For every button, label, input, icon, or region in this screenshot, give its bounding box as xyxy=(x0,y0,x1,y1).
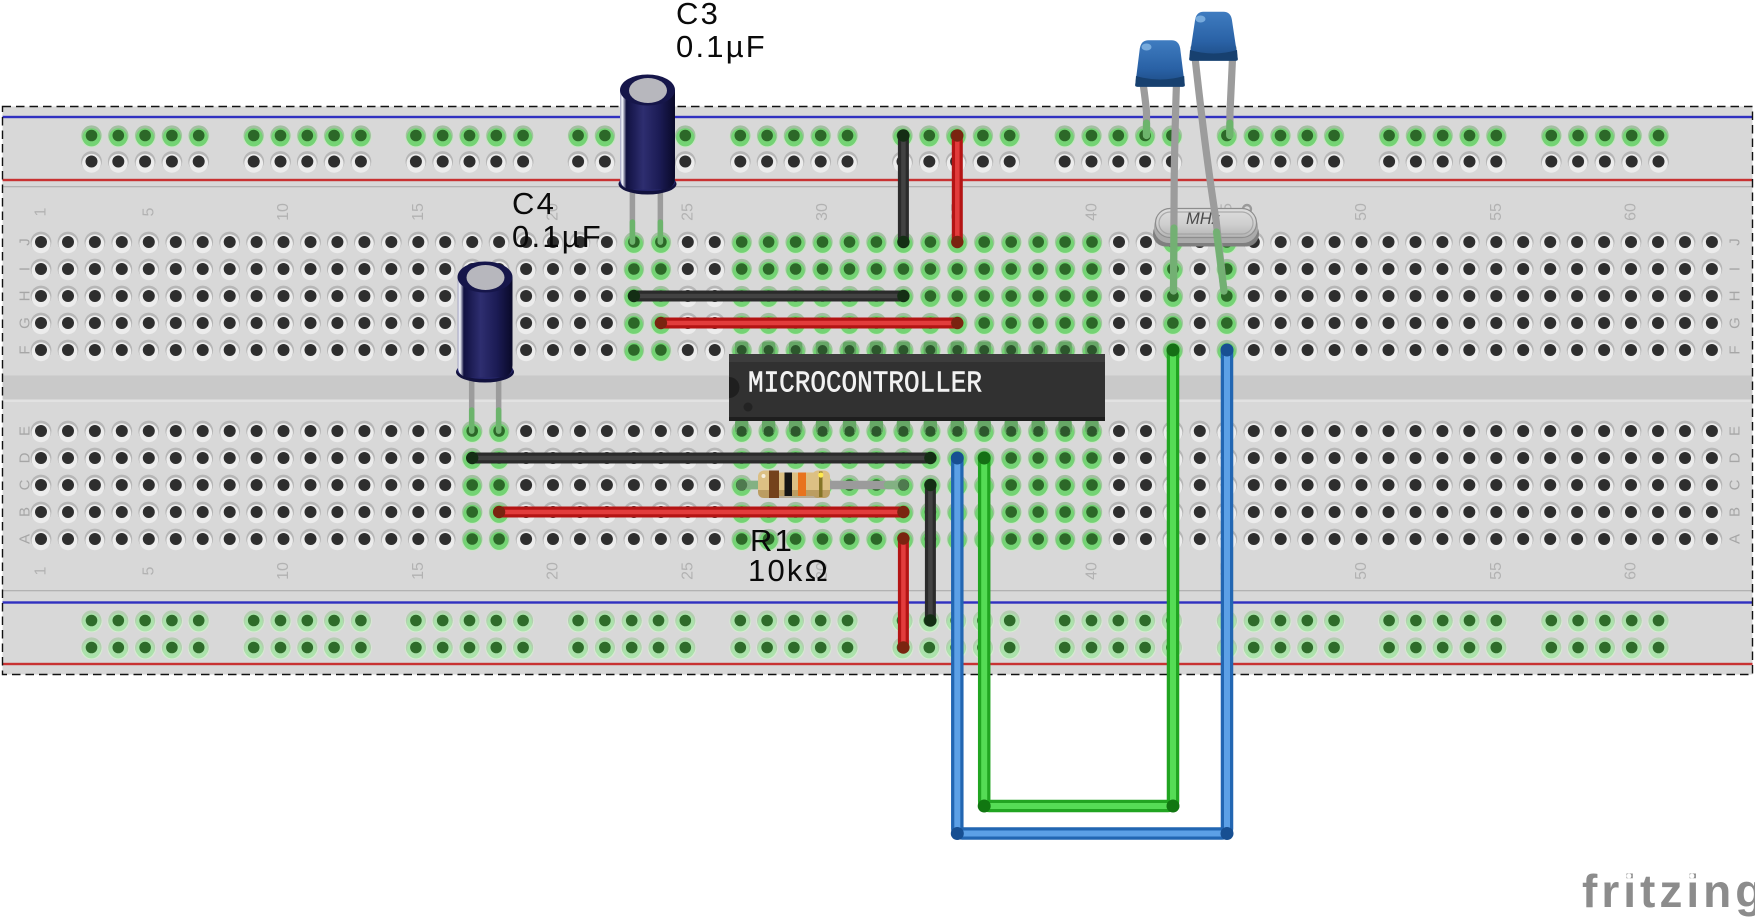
svg-text:25: 25 xyxy=(679,203,696,221)
svg-text:10: 10 xyxy=(275,562,292,580)
svg-text:1: 1 xyxy=(33,207,50,216)
svg-text:G: G xyxy=(1727,317,1744,329)
svg-text:50: 50 xyxy=(1353,203,1370,221)
svg-text:fritzing: fritzing xyxy=(1582,865,1755,917)
svg-text:5: 5 xyxy=(140,566,157,575)
svg-text:10: 10 xyxy=(275,203,292,221)
svg-text:5: 5 xyxy=(140,207,157,216)
svg-text:B: B xyxy=(1727,507,1744,517)
svg-text:I: I xyxy=(1727,267,1744,271)
svg-text:D: D xyxy=(1727,452,1744,463)
svg-text:20: 20 xyxy=(545,562,562,580)
svg-text:15: 15 xyxy=(410,203,427,221)
svg-text:C: C xyxy=(1727,479,1744,490)
svg-text:C4: C4 xyxy=(512,186,556,221)
svg-text:60: 60 xyxy=(1623,562,1640,580)
svg-text:50: 50 xyxy=(1353,562,1370,580)
svg-text:MICROCONTROLLER: MICROCONTROLLER xyxy=(748,367,982,401)
svg-text:10kΩ: 10kΩ xyxy=(748,553,830,588)
svg-text:E: E xyxy=(1727,426,1744,436)
svg-text:30: 30 xyxy=(814,203,831,221)
svg-text:55: 55 xyxy=(1488,203,1505,221)
svg-text:25: 25 xyxy=(679,562,696,580)
svg-text:C3: C3 xyxy=(676,0,720,31)
svg-text:55: 55 xyxy=(1488,562,1505,580)
svg-text:15: 15 xyxy=(410,562,427,580)
svg-text:0.1µF: 0.1µF xyxy=(512,219,603,254)
svg-text:A: A xyxy=(1727,534,1744,544)
svg-text:60: 60 xyxy=(1623,203,1640,221)
svg-text:0.1µF: 0.1µF xyxy=(676,29,767,64)
svg-text:J: J xyxy=(1727,238,1744,246)
svg-text:40: 40 xyxy=(1084,203,1101,221)
svg-text:40: 40 xyxy=(1084,562,1101,580)
svg-text:H: H xyxy=(1727,291,1744,302)
svg-text:1: 1 xyxy=(33,566,50,575)
svg-text:F: F xyxy=(1727,345,1744,354)
